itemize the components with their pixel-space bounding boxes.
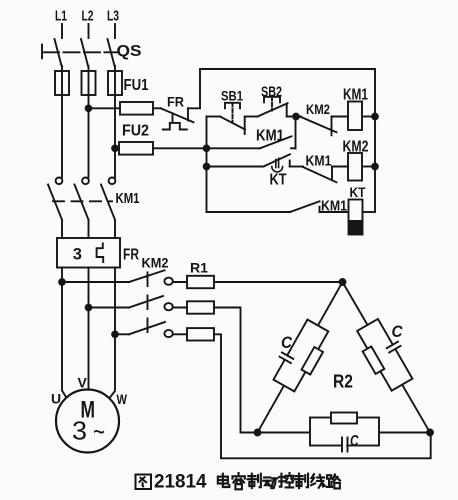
hanzi zhi (make)	[248, 474, 261, 488]
RC branch bottom	[310, 413, 379, 452]
contact KM1 self-hold blade	[260, 136, 292, 148]
wire control top bus	[200, 68, 375, 70]
svg-text:QS: QS	[117, 43, 142, 60]
wire L3 stub	[114, 24, 116, 38]
coil KT core black	[349, 221, 363, 235]
fuse FU1 pole1	[55, 71, 69, 95]
contact KM1 NC row3 blade	[290, 201, 320, 212]
wire KT contact to KM1 contact	[290, 166, 303, 168]
wire pole1 blade to FR box	[61, 220, 63, 238]
node junction dot brake tap U	[59, 279, 65, 285]
svg-text:FR: FR	[123, 247, 139, 264]
resistor in right RC branch	[363, 346, 385, 374]
wire row3 lead	[207, 211, 291, 213]
svg-text:C: C	[281, 333, 293, 352]
contact KM1 NC row2 blade	[303, 167, 337, 182]
wire V phase FR box to motor	[88, 268, 90, 390]
capacitor C plates bottom	[342, 438, 348, 452]
svg-text:C: C	[350, 433, 359, 450]
fuse FU2 lower	[119, 142, 153, 155]
wire KT coil to rail	[363, 211, 376, 213]
capacitor C plates right	[387, 342, 401, 353]
svg-text:R2: R2	[333, 372, 353, 392]
thermal relay contact FR blade	[161, 108, 194, 122]
node junction dot left rail line2	[204, 145, 210, 151]
svg-text:FU2: FU2	[122, 123, 149, 140]
capacitor gap mask left	[283, 355, 289, 360]
node junction dot brake tap V	[86, 305, 92, 311]
svg-text:V: V	[78, 375, 88, 391]
wire pole3 blade to FR box	[114, 220, 116, 238]
hanzi lu (road)	[327, 474, 340, 488]
wire brake tap row3	[115, 333, 129, 335]
resistor in left RC branch	[302, 347, 324, 375]
resistor R1 row1	[187, 276, 214, 288]
contact KT fixed bar	[289, 161, 291, 167]
contactor KM2 pole1 blade	[129, 270, 165, 282]
node junction dot rail row2	[372, 164, 378, 170]
node apex junction dot	[340, 279, 346, 285]
resistor R1 row2	[187, 301, 214, 313]
capacitor gap mask bottom	[343, 444, 346, 448]
svg-text:3: 3	[73, 246, 82, 264]
wire KM1 row3 to KT coil	[320, 211, 349, 213]
motor M circle	[56, 390, 119, 453]
wire self-hold to node B	[295, 117, 297, 149]
contact KM2 interlock fixed bar	[331, 117, 333, 136]
pushbutton SB1 fixed bar	[244, 117, 246, 134]
wire U phase FR box to motor	[62, 268, 66, 398]
contactor KM2 pole1 circle	[164, 278, 172, 285]
wire KM2 coil to rail	[362, 166, 375, 168]
pushbutton SB2 cap	[264, 97, 280, 103]
svg-text:FU1: FU1	[124, 77, 149, 94]
fuse FU1 pole3	[108, 71, 122, 95]
wire row2 to left vertex	[214, 308, 258, 433]
svg-text:KT: KT	[350, 184, 366, 200]
RC right loop box	[357, 319, 412, 391]
wire phase2 QS to fuse	[88, 66, 90, 95]
switch QS pole 1 blade	[55, 39, 62, 67]
wire KM1 coil to rail	[362, 116, 375, 118]
svg-text:KM2: KM2	[142, 255, 169, 271]
hanzi zhi2 (make)	[295, 474, 308, 488]
thermal relay contact FR fixed bar	[187, 108, 189, 120]
wire FU2 lower to left rail	[153, 147, 260, 149]
wire pole3 circle to R1	[173, 333, 187, 335]
contactor KM2 pole2 blade	[129, 296, 163, 308]
hanzi dong (move)	[263, 477, 277, 488]
wire FR to top bus	[188, 69, 200, 108]
wire row3 to right vertex	[214, 334, 431, 458]
resistor R1 row3	[187, 328, 214, 340]
contactor KM1 main linkage	[53, 200, 112, 202]
contactor KM2 pole2 circle	[164, 303, 172, 310]
wire left vertex to bottom box	[258, 432, 311, 434]
wire KM2 contact to KM1 coil	[332, 116, 349, 118]
wire FU2 upper to FR	[153, 107, 161, 109]
svg-text:21814: 21814	[154, 472, 207, 493]
wire control right rail	[374, 69, 376, 212]
contact KM1 NC row3 fixed bar	[319, 207, 321, 212]
wire KM1 contact to KM2 coil	[332, 166, 348, 168]
svg-text:L2: L2	[82, 8, 94, 25]
RC left loop box	[273, 320, 328, 392]
hanzi rong (capacity)	[232, 473, 244, 489]
wire bottom box to right vertex	[379, 432, 430, 434]
svg-text:W: W	[117, 391, 128, 407]
wire brake tap row2	[89, 307, 130, 309]
hanzi dian (electric)	[218, 474, 230, 487]
contactor KM1 main pole1 blade	[48, 185, 62, 220]
contact KT delay blade	[264, 154, 291, 166]
fuse FU1 pole2	[82, 71, 96, 95]
switch QS pole 2 blade	[81, 39, 88, 67]
svg-text:SB1: SB1	[221, 88, 243, 104]
svg-text:C: C	[392, 322, 404, 341]
contactor KM1 main pole2 blade	[75, 185, 89, 220]
wire pole2 blade to FR box	[88, 220, 90, 238]
svg-text:L1: L1	[55, 8, 67, 25]
caption hand-drawn hanzi	[136, 473, 340, 489]
contactor KM1 main pole1 circle	[56, 178, 63, 185]
wire pole2 circle to R1	[173, 307, 187, 309]
wire brake tap row1	[62, 281, 129, 283]
hanzi xian (wire)	[311, 474, 325, 488]
capacitor gap mask right	[392, 344, 398, 349]
wire control line 2	[115, 147, 119, 149]
wire W phase FR box to motor	[110, 268, 116, 399]
contact KM1 self-hold foot	[291, 147, 296, 149]
contactor KM1 main pole3 circle	[109, 178, 116, 185]
wire phase1 QS to fuse	[61, 66, 63, 95]
thermal relay contact FR actuator	[163, 113, 187, 129]
svg-text:KT: KT	[270, 172, 287, 189]
RC branch left side	[268, 317, 333, 395]
node left vertex junction dot	[255, 430, 261, 436]
svg-text:KM2: KM2	[306, 101, 330, 117]
contactor KM2 pole3 circle	[164, 330, 172, 337]
svg-text:KM1: KM1	[116, 190, 140, 207]
thermal relay FR box	[57, 238, 120, 268]
RC bottom loop box	[310, 418, 379, 446]
wire triangle left side	[258, 282, 343, 433]
pushbutton SB2 blade	[258, 103, 288, 116]
svg-text:U: U	[51, 391, 61, 407]
wire SB2 to KM2 contact	[287, 116, 301, 118]
pushbutton SB1 lead	[207, 116, 221, 118]
wire phase3 fuse to KM1 contact	[114, 95, 116, 178]
contactor KM1 main pole2 circle	[82, 178, 89, 185]
resistor in bottom RC branch	[331, 413, 357, 424]
wire row1 to apex	[214, 281, 343, 283]
wire phase3 QS to fuse	[114, 66, 116, 95]
node junction dot rail row1	[372, 114, 378, 120]
node junction dot rail row2 left	[204, 164, 210, 170]
hanzi tu (figure)	[136, 475, 152, 490]
pushbutton SB2 fixed bar	[286, 104, 288, 117]
switch QS handle	[41, 45, 43, 59]
wire phase2 fuse to KM1 contact	[88, 95, 90, 178]
svg-text:FR: FR	[167, 94, 184, 110]
switch QS linkage	[43, 51, 118, 53]
RC branch right side	[352, 316, 417, 394]
hanzi kong (control)	[279, 473, 293, 487]
node right vertex junction dot	[427, 430, 433, 436]
svg-text:3: 3	[72, 416, 87, 446]
caption figure number	[154, 472, 207, 493]
wire triangle right side	[343, 282, 431, 433]
wire L2 stub	[88, 24, 90, 38]
wire SB1 to SB2	[245, 116, 258, 118]
capacitor C plates left	[280, 352, 294, 363]
switch QS pole 3 blade	[108, 39, 115, 67]
wire control left rail	[206, 117, 208, 213]
contactor KM2 linkage	[147, 273, 149, 338]
thermal relay FR heater symbol	[97, 244, 104, 263]
wire row2 lead	[207, 166, 264, 168]
contact KT delay arc	[272, 167, 283, 172]
wire L1 stub	[61, 24, 63, 38]
pushbutton SB1 blade	[220, 117, 245, 130]
wire pole1 circle to R1	[173, 281, 187, 283]
pushbutton SB2 stem	[271, 97, 273, 111]
contactor KM2 pole3 blade	[129, 322, 165, 334]
wire phase1 fuse to KM1 contact	[61, 95, 63, 178]
node junction dot phase2 control tap	[86, 105, 92, 111]
contact KM2 interlock blade	[301, 117, 337, 132]
contact KM1 NC row2 fixed bar	[331, 167, 333, 180]
contact KT delay actuator	[276, 158, 279, 167]
wire control line 1	[89, 107, 121, 109]
svg-text:KM1: KM1	[256, 128, 284, 145]
coil KT body	[349, 200, 363, 222]
fuse FU2 upper	[120, 102, 153, 115]
svg-text:KM1: KM1	[306, 153, 332, 170]
pushbutton SB1 cap	[225, 103, 240, 109]
svg-text:~: ~	[93, 416, 105, 447]
node junction dot brake tap W	[112, 331, 118, 337]
contactor KM1 main pole3 blade	[101, 185, 115, 220]
coil KM2	[348, 153, 362, 181]
coil KM1	[348, 102, 362, 131]
node B junction dot	[293, 114, 299, 120]
svg-text:R1: R1	[190, 260, 208, 276]
pushbutton SB1 stem	[232, 103, 234, 123]
svg-text:L3: L3	[107, 8, 119, 25]
node junction dot phase3 control tap	[112, 145, 118, 151]
